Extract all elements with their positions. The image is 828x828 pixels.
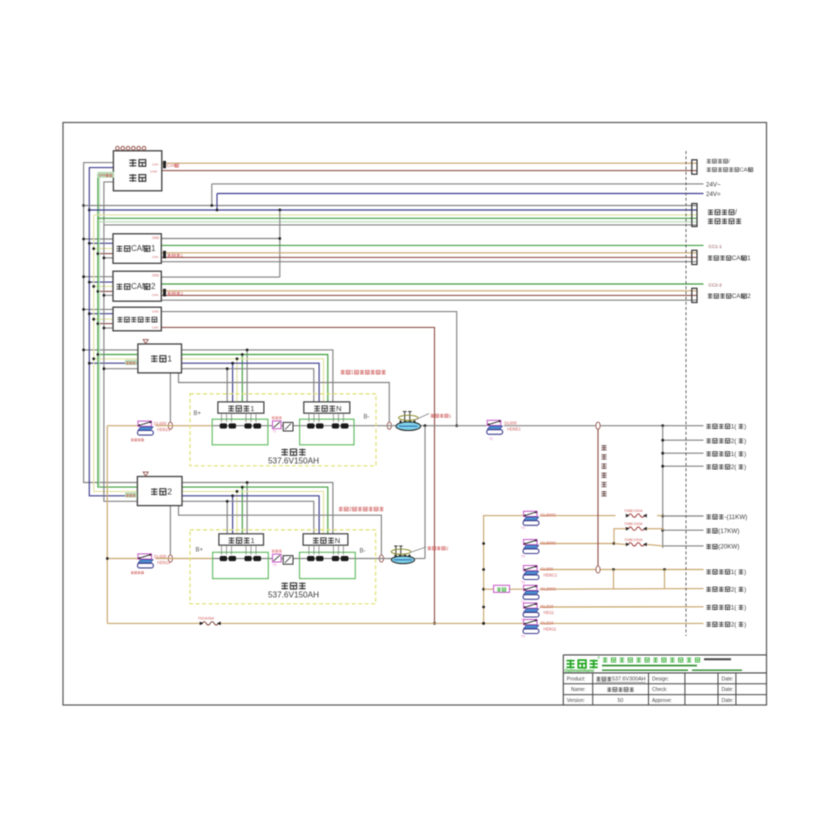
svg-text:): ) xyxy=(744,604,746,611)
svg-text:1: 1 xyxy=(251,536,255,545)
label debug interface xyxy=(708,209,741,224)
svg-text:HD11: HD11 xyxy=(544,610,555,615)
label B+ group1 xyxy=(194,411,202,417)
svg-text:): ) xyxy=(744,621,746,628)
svg-text:Name:: Name: xyxy=(571,687,586,693)
svg-text:): ) xyxy=(744,423,746,430)
svg-text:1: 1 xyxy=(250,404,254,413)
svg-text:GL600: GL600 xyxy=(154,554,167,559)
label discharge port2 pos xyxy=(706,586,746,593)
wire relay rail (tan) xyxy=(482,516,523,625)
probe ring E3 xyxy=(168,555,172,562)
svg-text:B-: B- xyxy=(360,549,366,555)
svg-text:HD611: HD611 xyxy=(544,627,557,632)
wire 24V= xyxy=(216,194,704,212)
resistor R1 xyxy=(494,585,510,592)
wire slave2 sense 5 xyxy=(182,500,314,534)
logo watma xyxy=(565,656,601,673)
label charge port1 pos xyxy=(706,604,746,611)
svg-text:T1: T1 xyxy=(273,430,277,434)
label group2 name xyxy=(268,582,319,599)
svg-text:COM: COM xyxy=(150,170,158,174)
wire load sanheyi (gray) xyxy=(663,515,704,517)
cell frame 2b xyxy=(300,552,356,578)
svg-text:GL600C: GL600C xyxy=(541,512,557,517)
relay K3 GL600C xyxy=(521,511,556,530)
collector pin ticks group2 xyxy=(222,545,344,554)
wire slave1 busbar sense (gray) xyxy=(179,373,390,422)
wire slave1 sense 1 xyxy=(182,349,333,403)
relay K4 GL600C xyxy=(521,540,556,559)
svg-text:1(: 1( xyxy=(731,569,738,576)
label GPRS antenna xyxy=(98,172,115,178)
svg-text:70BE190A: 70BE190A xyxy=(624,537,643,542)
label B- group1 xyxy=(364,415,370,421)
wire slave1 sense 2 xyxy=(182,353,328,402)
wire bus V3 (pale yellow) xyxy=(92,215,138,492)
svg-text:2(: 2( xyxy=(731,438,738,445)
connector J2 xyxy=(692,204,697,227)
wire discharge2+ branch (tan) xyxy=(484,588,704,591)
relay K5 GL600/HD6C1 xyxy=(521,566,558,585)
svg-text:CAN: CAN xyxy=(152,293,158,297)
collector boxN-1 xyxy=(304,402,350,413)
battery group2 dashed box xyxy=(190,530,376,604)
svg-text:70BE190A: 70BE190A xyxy=(624,508,643,513)
boundary dashed line xyxy=(685,151,687,636)
svg-text:Design:: Design: xyxy=(652,677,669,683)
wire main-positive sense (gray) xyxy=(161,312,458,428)
fuse F1 group1 xyxy=(272,416,282,433)
svg-text:CAN: CAN xyxy=(152,326,158,330)
svg-text:T6: T6 xyxy=(521,580,525,584)
svg-text:2(: 2( xyxy=(731,464,738,471)
svg-text:CAN: CAN xyxy=(152,255,158,259)
svg-text:GND: GND xyxy=(152,236,160,240)
probe ring E4 xyxy=(379,555,383,562)
battery cells group2 xyxy=(220,556,348,561)
svg-text:®: ® xyxy=(598,656,601,660)
wire debug bus 2 (navy) xyxy=(89,209,697,211)
title block labels xyxy=(567,677,734,704)
wire slave1 sense 5 xyxy=(182,367,314,402)
wire defrost branch (tan) xyxy=(614,544,663,546)
cell frame 2a xyxy=(213,552,269,578)
svg-text:1: 1 xyxy=(151,244,155,253)
svg-text:Date:: Date: xyxy=(722,687,734,693)
connector J1 xyxy=(692,160,697,174)
relay GL600/HD614 group2 xyxy=(131,554,171,574)
svg-text:B+: B+ xyxy=(194,411,202,417)
wire slave2 sense 3 xyxy=(182,490,324,534)
svg-text:T4: T4 xyxy=(521,526,525,530)
wire bus V2 GND (navy) xyxy=(88,168,138,496)
relay GL600/HD613 group1 xyxy=(131,421,171,441)
name value xyxy=(607,687,634,691)
svg-text:2: 2 xyxy=(446,546,449,551)
fuse FU1 70BE190A xyxy=(624,508,647,518)
label comm line slave1 xyxy=(125,360,137,365)
svg-text:1: 1 xyxy=(449,413,452,418)
module slave2 xyxy=(137,477,182,506)
cell frame 1b xyxy=(300,419,354,445)
svg-text:OptimumNano: OptimumNano xyxy=(565,668,595,673)
wire vehicle CAN-L (dark red) xyxy=(162,170,697,172)
fuse FU3 70BE190A xyxy=(624,537,647,547)
svg-text:24V~: 24V~ xyxy=(706,182,721,189)
svg-text:GL600: GL600 xyxy=(541,567,554,572)
fuse FU4 70DA05A xyxy=(198,616,221,626)
manual switch box group1 xyxy=(283,422,293,431)
svg-text:537.6V150AH: 537.6V150AH xyxy=(268,457,319,466)
svg-text:GND: GND xyxy=(152,309,160,313)
svg-text:1(: 1( xyxy=(731,604,738,611)
svg-text:CAN: CAN xyxy=(152,163,158,167)
label sanheyi 11KW xyxy=(706,514,747,521)
manual switch box group2 xyxy=(283,556,293,565)
svg-text:537.6V300AH: 537.6V300AH xyxy=(612,677,646,683)
wire debug bus 5 (light green) xyxy=(100,221,698,223)
contactor K1 xyxy=(396,420,421,430)
svg-text:GL200C: GL200C xyxy=(541,586,557,591)
module CAN box2 xyxy=(113,271,161,301)
svg-text:Date:: Date: xyxy=(722,698,734,704)
svg-text:2: 2 xyxy=(349,507,352,513)
collector boxN-2 xyxy=(303,534,348,545)
svg-text:HD6C1: HD6C1 xyxy=(544,573,558,578)
svg-text:): ) xyxy=(744,586,746,593)
connector J3 xyxy=(692,250,697,264)
label group1 name xyxy=(268,449,319,466)
wire group2 main line xyxy=(156,426,426,559)
antenna symbol slave1 xyxy=(143,340,148,344)
battery group1 dashed box xyxy=(190,394,376,466)
label vehicle CAN interface xyxy=(707,159,753,174)
svg-text:Version:: Version: xyxy=(567,698,585,704)
svg-text:Approve:: Approve: xyxy=(652,698,672,704)
svg-text:-(11KW): -(11KW) xyxy=(724,514,747,521)
svg-text:/: / xyxy=(735,210,737,217)
wire busbar voltage sense (brown) xyxy=(597,429,599,566)
svg-text:50: 50 xyxy=(618,698,624,704)
label 24V~ xyxy=(706,182,721,189)
wire slave1 B- sense (gray) xyxy=(169,373,171,422)
svg-text:537.6V150AH: 537.6V150AH xyxy=(268,591,319,600)
wire load defrost (gray) xyxy=(663,545,704,547)
wire 24V~ xyxy=(210,184,703,207)
probe ring E5 xyxy=(596,422,600,429)
wire bus V5 (light green) xyxy=(100,177,114,488)
svg-text:70BE190A: 70BE190A xyxy=(624,521,643,526)
probe ring E2 xyxy=(387,422,391,429)
contactor K2 xyxy=(391,555,414,564)
wire slave2 busbar sense (gray) xyxy=(179,506,382,555)
collector box1-2 xyxy=(219,534,264,545)
service switch S2 xyxy=(391,546,426,556)
svg-text:N: N xyxy=(336,404,341,413)
wire debug bus 3 (pale yellow) xyxy=(94,214,697,216)
svg-text:2: 2 xyxy=(151,282,155,291)
svg-text:): ) xyxy=(744,464,746,471)
label busbar voltage sense (vertical) xyxy=(601,445,606,497)
wire CAN box1 aux (gray) xyxy=(161,261,697,263)
wire bus V4 CAN (green) xyxy=(97,175,138,488)
svg-text:Check:: Check: xyxy=(652,687,668,693)
label CC1-1 xyxy=(709,244,723,249)
svg-text:): ) xyxy=(744,569,746,576)
label discharge port1 neg xyxy=(706,423,746,430)
svg-text:B-: B- xyxy=(364,415,370,421)
label comm line slave2 xyxy=(125,492,137,497)
svg-text:1: 1 xyxy=(351,370,354,376)
probe ring E1 xyxy=(168,422,172,429)
wire debug bus 1 (gray) xyxy=(84,205,697,207)
relay GL600/HD6E1 main xyxy=(487,420,522,441)
battery cells group1 xyxy=(220,424,348,429)
svg-text:): ) xyxy=(744,438,746,445)
wire debug bus 4 (green) xyxy=(98,217,697,219)
wire slave2 sense 1 xyxy=(182,481,333,534)
product value xyxy=(596,677,646,683)
label slave1 busbar voltage sense xyxy=(341,370,386,376)
relay K7 GLZ10/HD11 xyxy=(521,603,555,622)
label 24V= xyxy=(706,191,721,198)
wire bus V6 (gray) xyxy=(103,182,138,501)
terminal mark charge line2 xyxy=(163,289,183,296)
label charge port2 pos xyxy=(706,621,746,628)
terminal mark charge line1 xyxy=(163,251,183,258)
svg-text:N: N xyxy=(335,536,340,545)
svg-text:(20KW): (20KW) xyxy=(718,544,739,551)
svg-text:GL600: GL600 xyxy=(504,421,517,426)
wire slave2 B- sense (gray) xyxy=(169,506,171,555)
terminal mark CAN line xyxy=(163,161,178,168)
svg-text:1: 1 xyxy=(167,354,172,364)
label charge port2 neg xyxy=(706,464,746,471)
svg-text:T9: T9 xyxy=(521,634,525,638)
wire group1 main line xyxy=(156,424,704,427)
wire negative trunk (gray) xyxy=(661,426,703,548)
wire slave2 sense 2 xyxy=(182,486,328,534)
probe ring E6 xyxy=(596,566,600,573)
svg-text:1(: 1( xyxy=(731,423,738,430)
svg-text:2(: 2( xyxy=(731,586,738,593)
svg-text:CC2-2: CC2-2 xyxy=(709,283,723,288)
svg-text:CC1-1: CC1-1 xyxy=(709,244,723,249)
svg-text:1: 1 xyxy=(747,255,751,262)
svg-text:): ) xyxy=(744,451,746,458)
svg-text:GL600C: GL600C xyxy=(541,541,557,546)
label charge CAN line2 xyxy=(708,293,751,300)
svg-text:T2: T2 xyxy=(489,437,493,441)
svg-text:Product:: Product: xyxy=(567,677,586,683)
svg-text:CAN: CAN xyxy=(740,168,752,174)
wire slave1 sense 4 xyxy=(182,362,320,402)
service switch S1 xyxy=(399,412,429,422)
svg-text:(17KW): (17KW) xyxy=(718,528,739,535)
svg-text:GLZ10: GLZ10 xyxy=(541,621,554,626)
svg-text:T3: T3 xyxy=(273,563,277,567)
wire CAN box2 aux (gray) xyxy=(161,299,697,301)
svg-text:2: 2 xyxy=(167,487,172,497)
company name xyxy=(603,658,700,663)
antenna symbol slave2 xyxy=(143,472,148,476)
module CAN box1 xyxy=(113,234,161,263)
cell frame 1a xyxy=(212,419,268,445)
svg-text:24V=: 24V= xyxy=(706,191,721,198)
title block grid xyxy=(563,655,766,705)
label B- group2 xyxy=(360,549,366,555)
connector J4 xyxy=(692,288,697,302)
module insulation monitor xyxy=(113,307,161,331)
wire charge CAN1-H (tan) xyxy=(161,252,697,254)
wire debug bus 6 (gray) xyxy=(104,224,697,226)
wire charge CAN2-L (dark red) xyxy=(161,294,697,296)
wire CC2-2 (green) xyxy=(161,283,703,285)
label discharge port1 pos xyxy=(706,569,746,576)
relay K6 GL200C xyxy=(521,585,556,604)
label slave2 busbar voltage sense xyxy=(339,507,384,513)
fuse FU2 70BE190A xyxy=(624,521,647,531)
svg-text:T5: T5 xyxy=(521,554,525,558)
label CC2-2 xyxy=(709,283,723,288)
svg-text:B+: B+ xyxy=(196,548,204,554)
svg-text:GND: GND xyxy=(152,274,160,278)
label charge CAN line1 xyxy=(708,255,751,262)
fuse F2 group2 xyxy=(272,550,282,567)
wire load aircon (gray) xyxy=(663,529,704,531)
wire GND link (gray) xyxy=(161,209,281,278)
label service switch1 xyxy=(431,413,452,418)
wire CC1-1 (green) xyxy=(161,244,703,246)
wire main-negative sense (dark red) xyxy=(161,327,436,624)
svg-text:2(: 2( xyxy=(731,621,738,628)
label defrost 20KW xyxy=(706,544,739,551)
company address lines xyxy=(602,659,742,670)
label service switch2 xyxy=(428,546,449,551)
wire positive feeder bus (tan) xyxy=(106,426,704,625)
svg-text:HD614: HD614 xyxy=(157,560,171,565)
svg-text:70DA05A: 70DA05A xyxy=(198,616,215,621)
collector pin ticks group1 xyxy=(222,413,344,422)
svg-text:2: 2 xyxy=(181,291,184,296)
svg-text:1(: 1( xyxy=(731,451,738,458)
wire discharge1+ branch (tan) xyxy=(540,568,704,589)
connector pins main control top xyxy=(116,146,146,150)
wire slave1 sense 3 xyxy=(182,357,324,402)
label charge port1 neg xyxy=(706,451,746,458)
wire sanheyi branch (tan) xyxy=(540,515,663,517)
wire charge1+ branch (tan) xyxy=(540,606,704,608)
relay K8 GLZ10/HD611 xyxy=(521,620,557,639)
label B+ group2 xyxy=(196,548,204,554)
version value xyxy=(618,698,624,704)
module main control xyxy=(113,151,161,191)
wire bus V1 +24V (gray) xyxy=(82,163,138,483)
svg-text:HD6E1: HD6E1 xyxy=(507,427,521,432)
wire aircon branch (tan) xyxy=(540,529,663,545)
svg-text:1: 1 xyxy=(181,253,184,258)
svg-text:2: 2 xyxy=(747,293,751,300)
wire charge CAN1-L (dark red) xyxy=(161,256,697,258)
wire slave2 sense 4 xyxy=(182,494,319,533)
wire vehicle CAN-H (tan) xyxy=(162,162,697,164)
wire charge CAN2-H (tan) xyxy=(161,290,697,292)
svg-text:GL600: GL600 xyxy=(154,421,167,426)
svg-text:GLZ10: GLZ10 xyxy=(541,604,554,609)
module slave1 xyxy=(138,344,182,373)
svg-text:Date:: Date: xyxy=(722,677,734,683)
label aircon 17KW xyxy=(706,528,739,535)
label discharge port2 neg xyxy=(706,438,746,445)
svg-text:HD613: HD613 xyxy=(157,427,171,432)
collector box1-1 xyxy=(218,402,264,413)
